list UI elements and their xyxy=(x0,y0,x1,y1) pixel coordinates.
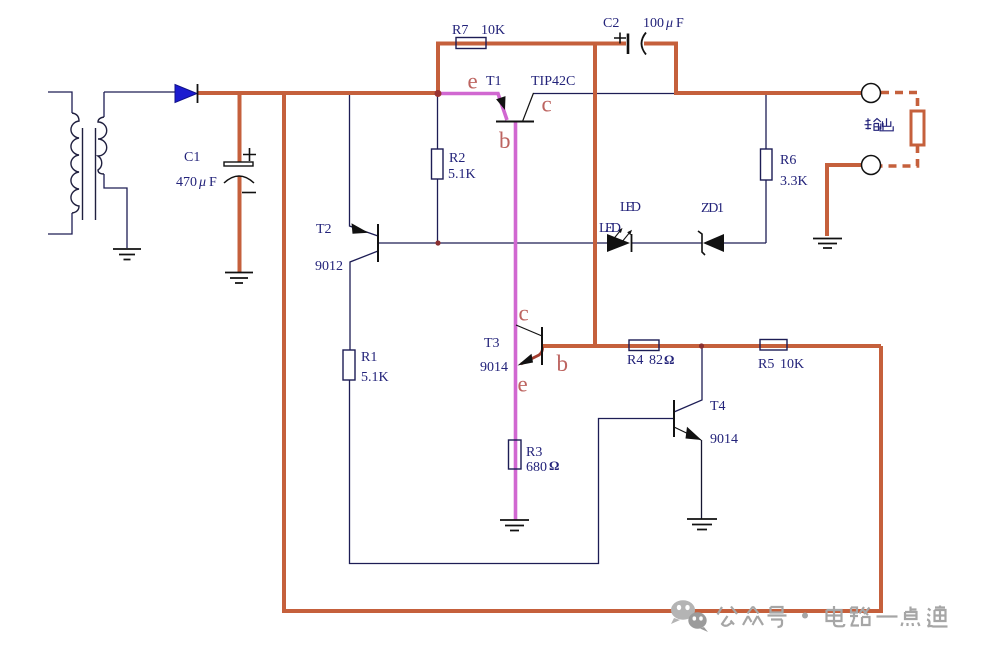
svg-text:R5: R5 xyxy=(758,357,774,372)
svg-text:470: 470 xyxy=(176,175,197,190)
svg-text:c: c xyxy=(542,92,552,117)
svg-text:T1: T1 xyxy=(486,74,502,89)
svg-text:82: 82 xyxy=(649,353,663,368)
svg-text:e: e xyxy=(518,372,528,397)
svg-text:3.3K: 3.3K xyxy=(780,174,808,189)
svg-text:9014: 9014 xyxy=(480,360,508,375)
svg-text:μ: μ xyxy=(198,175,206,190)
svg-text:R6: R6 xyxy=(780,153,796,168)
svg-text:Ω: Ω xyxy=(664,352,674,367)
svg-text:C1: C1 xyxy=(184,150,200,165)
svg-text:R4: R4 xyxy=(627,353,643,368)
svg-text:ZD1: ZD1 xyxy=(701,201,724,216)
svg-text:T2: T2 xyxy=(316,222,332,237)
svg-text:9014: 9014 xyxy=(710,432,738,447)
svg-text:R1: R1 xyxy=(361,350,377,365)
svg-text:T4: T4 xyxy=(710,399,726,414)
svg-text:R2: R2 xyxy=(449,151,465,166)
svg-text:R3: R3 xyxy=(526,445,542,460)
svg-text:C2: C2 xyxy=(603,16,619,31)
svg-text:680: 680 xyxy=(526,460,547,475)
svg-text:F: F xyxy=(676,16,684,31)
svg-text:TIP42C: TIP42C xyxy=(531,74,575,89)
svg-text:5.1K: 5.1K xyxy=(361,370,389,385)
svg-text:T3: T3 xyxy=(484,336,500,351)
svg-text:Ω: Ω xyxy=(549,458,559,473)
svg-text:10K: 10K xyxy=(481,23,505,38)
svg-text:c: c xyxy=(519,301,529,326)
svg-text:LED: LED xyxy=(599,221,621,236)
svg-text:F: F xyxy=(209,175,217,190)
svg-text:R7: R7 xyxy=(452,23,468,38)
svg-text:μ: μ xyxy=(665,16,673,31)
svg-text:10K: 10K xyxy=(780,357,804,372)
svg-text:b: b xyxy=(557,351,569,376)
svg-text:9012: 9012 xyxy=(315,259,343,274)
svg-text:100: 100 xyxy=(643,16,664,31)
svg-text:5.1K: 5.1K xyxy=(448,167,476,182)
svg-text:LED: LED xyxy=(620,200,641,215)
svg-text:b: b xyxy=(499,128,511,153)
svg-text:e: e xyxy=(468,69,478,94)
